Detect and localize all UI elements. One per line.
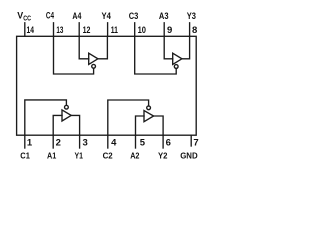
- wire gate1 output to Y1 pin3: [71, 115, 79, 135]
- svg-text:5: 5: [140, 138, 146, 149]
- svg-text:11: 11: [111, 25, 119, 36]
- buffer gate 4 triangle: [89, 53, 98, 64]
- svg-text:C1: C1: [20, 150, 30, 160]
- pin 14 lead: [24, 23, 26, 37]
- IC package outline U1: [17, 36, 197, 135]
- svg-text:A2: A2: [130, 150, 139, 160]
- svg-text:Y2: Y2: [158, 150, 168, 160]
- svg-text:12: 12: [83, 25, 91, 36]
- svg-text:7: 7: [193, 138, 198, 149]
- gate 2 enable bubble: [147, 106, 151, 110]
- svg-text:13: 13: [56, 25, 63, 36]
- pin 11 lead: [107, 23, 109, 37]
- svg-text:1: 1: [27, 138, 33, 149]
- pin 9 lead: [163, 23, 165, 37]
- pin 1 lead: [24, 135, 26, 148]
- wire A2 pin5 to gate2 input: [136, 116, 145, 135]
- buffer gate 2 triangle: [144, 111, 154, 122]
- svg-text:3: 3: [83, 138, 88, 149]
- svg-text:9: 9: [167, 25, 172, 36]
- pin 6 lead: [162, 135, 164, 148]
- gate 4 enable bubble: [92, 64, 96, 68]
- pin 2 lead: [52, 135, 54, 148]
- svg-text:A3: A3: [159, 11, 169, 21]
- pin 13 lead: [53, 23, 55, 37]
- wire C1 pin1 to gate1 enable: [25, 100, 67, 135]
- svg-text:Y1: Y1: [75, 150, 84, 160]
- svg-text:Y4: Y4: [102, 11, 111, 21]
- svg-text:CC: CC: [23, 16, 31, 23]
- svg-text:A1: A1: [47, 150, 56, 160]
- svg-text:Y3: Y3: [187, 11, 196, 21]
- gate 3 enable bubble: [174, 65, 178, 69]
- pin 10 lead: [134, 23, 136, 37]
- wire gate4 output to Y4 pin11: [98, 36, 108, 59]
- pin 3 lead: [79, 135, 81, 148]
- buffer gate 3 triangle: [173, 53, 182, 64]
- svg-text:GND: GND: [180, 150, 198, 160]
- svg-text:8: 8: [192, 25, 197, 36]
- svg-text:C4: C4: [46, 11, 54, 21]
- wire gate3 output to Y3 pin8: [182, 36, 190, 59]
- wire A4 pin12 to gate4 input: [79, 36, 89, 59]
- wire A3 pin9 to gate3 input: [164, 36, 173, 59]
- svg-text:10: 10: [138, 25, 146, 36]
- svg-text:C2: C2: [103, 150, 113, 160]
- pin 7 lead: [190, 135, 192, 146]
- svg-text:4: 4: [111, 138, 117, 149]
- wire A1 pin2 to gate1 input: [53, 115, 62, 135]
- svg-text:14: 14: [27, 25, 35, 36]
- svg-text:6: 6: [166, 138, 171, 149]
- pin 5 lead: [135, 135, 137, 148]
- svg-text:2: 2: [56, 138, 61, 149]
- pin 4 lead: [107, 135, 109, 148]
- svg-text:A4: A4: [72, 11, 81, 21]
- wire C3 pin10 to gate3 enable: [135, 36, 177, 74]
- wire gate2 output to Y2 pin6: [154, 116, 164, 135]
- buffer gate 1 triangle: [62, 110, 71, 121]
- pin 12 lead: [78, 23, 80, 37]
- gate 1 enable bubble: [65, 105, 69, 109]
- pin 8 lead: [189, 23, 191, 37]
- wire C4 pin13 to gate4 enable: [54, 36, 94, 74]
- wire C2 pin4 to gate2 enable: [108, 100, 149, 135]
- svg-text:C3: C3: [129, 11, 139, 21]
